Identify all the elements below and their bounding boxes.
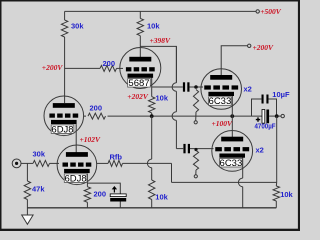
svg-text:6DJ8: 6DJ8 [65,173,87,184]
wire lower 6C33 cathode lower [242,187,244,208]
capacitor 10uF left plate [262,95,264,104]
wire lower 6C33 cathode upper [242,157,244,178]
svg-text:30k: 30k [71,22,84,31]
junction dot 6C33 node [230,114,234,118]
svg-text:10k: 10k [280,190,293,199]
wire cap to output [269,115,281,117]
svg-text:10µF: 10µF [272,90,290,99]
junction dot grid resistor upper [194,85,198,89]
triode 6DJ8 lower [57,145,97,185]
junction dot output [275,114,279,118]
wire cap to ground [119,202,121,208]
wire Rfb to corner [123,162,172,164]
svg-text:+200V: +200V [42,63,64,72]
border frame [0,0,300,2]
wire cathode to cap [87,183,120,194]
svg-text:6C33: 6C33 [220,158,243,169]
wire to lower coupling cap [176,148,183,150]
wire 30k top lead [64,11,66,20]
wire feedback corner down [171,163,173,182]
svg-text:+200V: +200V [253,43,275,52]
svg-text:200: 200 [90,104,103,113]
capacitor coupling upper left plate [183,82,185,91]
wire 47k to ground [26,200,28,215]
capacitor coupling lower left plate [183,144,185,153]
wire 200 to 5687 grid [117,67,124,69]
wire +398V branch [140,46,176,82]
triode 5687 [120,48,161,89]
resistor 30k input [33,160,50,166]
hop over +100V line [172,112,176,121]
resistor 200 (5687 grid) [100,65,117,71]
wire 10k top lead [139,11,141,18]
svg-text:+202V: +202V [127,92,149,101]
resistor grid-leak lower 6C33 [193,151,198,171]
resistor Rfb [108,160,123,166]
wire 10k to 5687 plate [139,36,141,57]
wire feedback bus [172,181,277,183]
capacitor 4700uF neg plate [262,110,265,124]
wire 10k right bottom [275,201,277,208]
capacitor coupling upper right plate [187,82,189,91]
svg-text:200: 200 [103,59,116,68]
ground symbol [22,215,33,224]
svg-text:30k: 30k [33,150,46,159]
wire 10uF right leg [269,99,277,116]
svg-text:x2: x2 [244,85,252,94]
wire output down [276,116,278,182]
wire +398V vertical lower [175,120,177,148]
svg-text:+500V: +500V [260,7,282,16]
wire 5687 cathode to cap [152,86,183,88]
hop over Rfb wire [147,159,151,168]
resistor R 30k (upper left) [61,20,67,37]
wire upper cathode to lower plate [75,124,77,152]
triode 6C33 upper [201,69,242,110]
resistor grid-leak upper 6C33 [193,90,198,113]
resistor 200 input cathode [84,187,90,203]
wire 47k branch [26,163,28,181]
wire 200 to ground [86,202,88,208]
triode 6C33 lower [212,131,253,172]
svg-text:200: 200 [94,190,107,199]
wire top +500V rail [65,10,256,12]
wire 6DJ8 cathode lead [86,174,88,187]
resistor 10k (output load) [273,186,279,201]
wire jack to 30k [21,162,33,164]
wire upper 6C33 cathode [231,96,233,117]
resistor 10k (5687 cathode) [149,97,155,113]
wire grid-leak to terminal [195,112,197,121]
polarity plus 4700uF [256,117,260,121]
polarity arrow input cap [113,189,115,193]
wire hop to 10k [151,168,153,180]
wire cap to lower 6C33 grid [190,148,214,150]
capacitor coupling lower right plate [188,144,190,153]
svg-text:+102V: +102V [80,135,102,144]
svg-text:10k: 10k [156,93,169,102]
wire cap to 6C33 grid [190,86,204,88]
terminal +500V [256,10,259,13]
triode 6DJ8 upper [44,96,84,136]
wire 10k left bottom [151,200,153,208]
wire 10k to +100V node [151,113,153,116]
terminal grid bias lower [194,175,197,178]
wire +200V node to 200ohm [65,67,100,69]
terminal grid bias upper [194,121,197,124]
svg-text:10k: 10k [155,192,168,201]
capacitor input bypass pos plate [110,198,126,202]
wire 30k to 6DJ8 grid [50,162,60,164]
svg-text:5687: 5687 [128,78,149,89]
resistor 47k [24,181,30,200]
input jack [12,159,21,168]
svg-text:x2: x2 [256,145,264,154]
resistor 200 (6DJ8 upper grid) [86,112,108,121]
wire lower 6C33 plate [231,116,233,137]
capacitor input bypass neg plate [110,194,126,197]
svg-text:6DJ8: 6DJ8 [51,124,73,135]
wire grid-leak to terminal lower [195,170,197,175]
wire +100V line [84,115,263,117]
capacitor 10uF right plate [266,95,268,104]
hop cathode over feedback wire [238,178,242,187]
junction dot 10k/+100V [150,114,154,118]
svg-text:4700µF: 4700µF [255,122,276,131]
hop over cap wire [172,83,176,92]
svg-text:+398V: +398V [150,36,172,45]
svg-text:6C33: 6C33 [209,96,232,107]
wire 10uF left leg [252,99,262,116]
svg-text:47k: 47k [32,184,45,193]
wire ground bus [27,207,276,209]
wire 5687 cathode lead [151,74,153,97]
wire +398V vertical upper [175,46,177,82]
capacitor 4700uF pos plate [266,110,269,124]
wire 10k left top [151,116,153,159]
svg-text:10k: 10k [147,22,160,31]
wire 30k bottom to 6DJ8 plate [64,37,66,103]
resistor 10k (left bottom) [149,180,155,200]
svg-text:+100V: +100V [212,119,234,128]
terminal +200V [248,44,251,47]
terminal output [281,114,284,117]
wire +398V vertical middle [175,91,177,112]
wire Rfb from 6DJ8 [97,162,109,164]
resistor R 10k (top) [137,18,143,35]
wire 10k right top [275,182,277,186]
junction dot grid resistor lower [194,148,197,151]
svg-text:Rfb: Rfb [110,153,123,162]
wire +200V to 6C33 plate [221,46,247,76]
